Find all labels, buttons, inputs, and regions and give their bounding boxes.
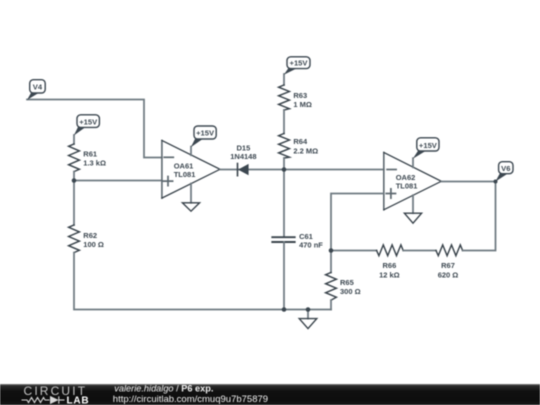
svg-text:100 Ω: 100 Ω bbox=[83, 240, 104, 249]
svg-text:+15V: +15V bbox=[79, 118, 98, 127]
svg-text:1.3 kΩ: 1.3 kΩ bbox=[83, 159, 106, 168]
svg-text:V4: V4 bbox=[33, 83, 43, 92]
power label +15V box at R63 bbox=[287, 57, 310, 69]
resistor R61 bbox=[69, 144, 80, 172]
svg-text:620 Ω: 620 Ω bbox=[438, 270, 459, 279]
flag of +15V label at R63 bbox=[284, 68, 296, 75]
op-amp OA61 plus symbol bbox=[163, 177, 172, 186]
node label V4 box bbox=[30, 80, 46, 93]
svg-text:R63: R63 bbox=[293, 91, 307, 100]
svg-text:LAB: LAB bbox=[67, 395, 90, 405]
op-amp OA61 minus symbol bbox=[164, 156, 173, 158]
svg-text:R62: R62 bbox=[83, 231, 97, 240]
svg-text:1N4148: 1N4148 bbox=[230, 152, 256, 161]
capacitor C61 top plate bbox=[272, 236, 294, 238]
svg-text:+15V: +15V bbox=[290, 59, 309, 68]
flag of V4 label bbox=[27, 92, 39, 100]
wire ground stub on bottom rail bbox=[307, 310, 309, 319]
wire node A to OA61 non-inverting input bbox=[74, 180, 162, 182]
svg-text:TL081: TL081 bbox=[174, 170, 196, 179]
svg-text:D15: D15 bbox=[237, 143, 251, 152]
wire OA61 output to node B bbox=[220, 169, 384, 171]
svg-text:R67: R67 bbox=[441, 261, 455, 270]
flag of +15V label at OA62 bbox=[413, 150, 426, 159]
node C junction dot bbox=[329, 248, 334, 253]
wire +15V stub to R63 bbox=[283, 74, 285, 85]
svg-text:R61: R61 bbox=[83, 150, 97, 159]
svg-text:12 kΩ: 12 kΩ bbox=[379, 270, 400, 279]
svg-text:R64: R64 bbox=[293, 137, 308, 146]
resistor R66 bbox=[377, 245, 404, 256]
node label V6 box bbox=[499, 162, 513, 174]
svg-text:TL081: TL081 bbox=[396, 181, 418, 190]
node B junction dot bbox=[282, 167, 287, 172]
resistor R63 bbox=[279, 85, 290, 110]
op-amp OA62 minus symbol bbox=[387, 169, 396, 171]
wire OA62 output to V6 corner bbox=[441, 181, 495, 183]
resistor R62 bbox=[69, 225, 80, 253]
wire node C to R66 bbox=[331, 250, 377, 252]
wire OA61 ground stub bbox=[190, 184, 192, 203]
wire node B to C61 bbox=[283, 170, 285, 237]
wire R67 to output corner bbox=[463, 182, 496, 251]
svg-text:300 Ω: 300 Ω bbox=[340, 287, 361, 296]
power label +15V box at OA61 bbox=[194, 126, 216, 139]
op-amp U2 OA62 triangle bbox=[383, 153, 385, 210]
flag of +15V label at R61 bbox=[74, 126, 86, 136]
svg-text:1 MΩ: 1 MΩ bbox=[293, 100, 312, 109]
svg-text:R65: R65 bbox=[340, 278, 354, 287]
footer black bar bbox=[0, 384, 540, 405]
logo resistor-diode squiggle bbox=[22, 396, 65, 403]
wire node A to R62 bbox=[73, 181, 75, 226]
ground below bottom rail bbox=[299, 319, 317, 329]
power label +15V box at OA62 bbox=[417, 138, 439, 151]
svg-text:+15V: +15V bbox=[419, 141, 438, 150]
wire R64 to node B bbox=[283, 158, 285, 170]
svg-text:R66: R66 bbox=[383, 261, 397, 270]
svg-text:+15V: +15V bbox=[196, 128, 215, 137]
wire OA62 ground stub bbox=[412, 195, 414, 213]
junction dot V6 corner bbox=[494, 180, 498, 184]
svg-text:http://circuitlab.com/cmuq9u7b: http://circuitlab.com/cmuq9u7b75879 bbox=[113, 394, 268, 405]
flag of +15V label at OA61 bbox=[191, 138, 203, 147]
junction dot ground stub bbox=[306, 307, 311, 312]
svg-text:2.2 MΩ: 2.2 MΩ bbox=[293, 146, 318, 155]
wire C61 to bottom rail bbox=[283, 242, 285, 310]
svg-text:valerie.hidalgo / P6 exp.: valerie.hidalgo / P6 exp. bbox=[114, 383, 213, 393]
junction dot C61 bottom bbox=[282, 307, 287, 312]
op-amp U1 OA61 triangle bbox=[161, 141, 163, 199]
wire OA62 non-inverting input to node C bbox=[331, 194, 384, 251]
capacitor C61 bottom plate bbox=[272, 241, 294, 243]
resistor R67 bbox=[436, 245, 463, 256]
node A junction dot bbox=[72, 178, 77, 183]
wire node C to R65 bbox=[330, 251, 332, 273]
resistor R64 bbox=[279, 134, 290, 159]
ground below OA62 bbox=[404, 213, 421, 223]
wire OA61 power stub bbox=[190, 147, 192, 156]
svg-text:470 nF: 470 nF bbox=[299, 241, 323, 250]
logo diode triangle bbox=[50, 396, 59, 404]
op-amp OA62 plus symbol bbox=[386, 189, 395, 198]
diode D15 cathode bar bbox=[237, 164, 239, 176]
wire R61 to node A bbox=[73, 172, 75, 181]
power label +15V box at R61 bbox=[77, 115, 99, 128]
svg-text:V6: V6 bbox=[501, 164, 510, 173]
wire R63 to R64 bbox=[283, 110, 285, 134]
ground below OA61 bbox=[182, 203, 199, 211]
resistor R65 bbox=[326, 273, 337, 301]
wire R65 to bottom rail bbox=[330, 300, 332, 309]
diode D15 arrow bbox=[238, 164, 249, 175]
flag of V6 label bbox=[496, 173, 508, 182]
wire +15V stub to R61 bbox=[73, 135, 75, 144]
wire V4 to OA61 inverting input bbox=[27, 100, 162, 158]
wire OA62 power stub bbox=[412, 158, 414, 167]
wire R62 to bottom rail bbox=[74, 253, 331, 310]
wire R66 to R67 bbox=[403, 250, 436, 252]
